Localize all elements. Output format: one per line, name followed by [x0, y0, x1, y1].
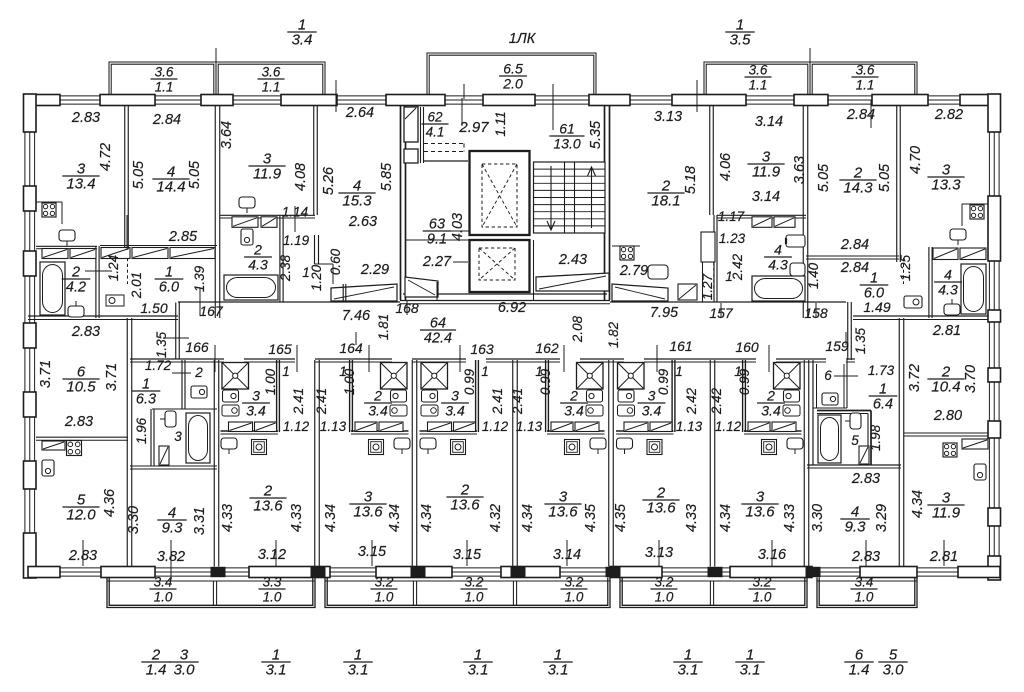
svg-text:3.2: 3.2 [753, 575, 772, 590]
svg-text:4.70: 4.70 [908, 146, 924, 174]
svg-text:3.4: 3.4 [642, 403, 662, 419]
svg-text:3.64: 3.64 [219, 121, 235, 149]
svg-text:7.95: 7.95 [650, 305, 679, 321]
svg-text:1.0: 1.0 [263, 590, 282, 605]
svg-text:1: 1 [535, 364, 543, 379]
svg-text:5.05: 5.05 [187, 160, 203, 189]
svg-text:2: 2 [253, 242, 262, 258]
svg-text:5.05: 5.05 [877, 163, 893, 192]
svg-text:3: 3 [451, 388, 459, 404]
svg-text:1.0: 1.0 [565, 590, 584, 605]
svg-text:3.2: 3.2 [655, 575, 674, 590]
svg-text:13.4: 13.4 [66, 176, 95, 193]
svg-text:2.27: 2.27 [422, 254, 452, 270]
svg-text:2.84: 2.84 [152, 112, 181, 128]
svg-text:1.50: 1.50 [140, 300, 167, 316]
svg-text:3: 3 [174, 429, 182, 444]
svg-text:0.60: 0.60 [328, 248, 343, 275]
svg-text:6.4: 6.4 [873, 397, 893, 413]
svg-text:165: 165 [268, 341, 292, 357]
svg-text:13.0: 13.0 [553, 136, 580, 152]
svg-text:3: 3 [648, 388, 656, 404]
svg-text:4.33: 4.33 [289, 504, 305, 532]
svg-text:13.6: 13.6 [353, 504, 383, 521]
svg-text:1: 1 [675, 364, 683, 379]
svg-text:3.14: 3.14 [752, 189, 780, 205]
svg-text:11.9: 11.9 [752, 164, 781, 181]
svg-text:3.4: 3.4 [292, 32, 313, 49]
svg-text:1.1: 1.1 [749, 78, 768, 93]
svg-text:2.29: 2.29 [360, 262, 389, 278]
svg-text:3.30: 3.30 [126, 506, 142, 534]
svg-text:1.98: 1.98 [868, 424, 883, 451]
svg-text:3.4: 3.4 [564, 403, 584, 419]
svg-text:4.35: 4.35 [583, 503, 599, 532]
svg-text:2.41: 2.41 [314, 388, 329, 415]
svg-text:2: 2 [569, 388, 578, 404]
svg-text:1.81: 1.81 [376, 314, 391, 340]
svg-text:1.12: 1.12 [715, 419, 742, 434]
svg-text:7.46: 7.46 [342, 308, 371, 324]
svg-text:4.33: 4.33 [782, 504, 798, 532]
svg-text:2.83: 2.83 [64, 414, 93, 430]
svg-text:1.11: 1.11 [493, 111, 508, 136]
svg-text:42.4: 42.4 [424, 331, 452, 347]
svg-text:3.0: 3.0 [174, 662, 196, 679]
svg-text:15.3: 15.3 [342, 193, 372, 210]
svg-text:4.33: 4.33 [684, 504, 700, 532]
svg-text:3.4: 3.4 [445, 403, 465, 419]
svg-text:2.83: 2.83 [71, 110, 100, 126]
svg-text:3.6: 3.6 [749, 63, 768, 78]
svg-text:63: 63 [429, 217, 445, 233]
svg-text:3.3: 3.3 [263, 575, 282, 590]
svg-text:159: 159 [825, 338, 849, 354]
svg-text:2.63: 2.63 [348, 214, 377, 230]
svg-text:1.1: 1.1 [856, 78, 875, 93]
svg-text:3.6: 3.6 [155, 65, 174, 80]
svg-text:167: 167 [199, 303, 224, 319]
svg-text:3.6: 3.6 [856, 63, 875, 78]
svg-text:1: 1 [481, 364, 489, 379]
svg-text:4.03: 4.03 [450, 213, 466, 241]
svg-text:6.92: 6.92 [498, 300, 526, 316]
svg-text:1: 1 [870, 271, 878, 287]
svg-text:161: 161 [669, 338, 692, 354]
svg-text:2.38: 2.38 [278, 254, 293, 282]
svg-text:5.26: 5.26 [321, 166, 337, 195]
svg-text:4.72: 4.72 [98, 143, 114, 171]
svg-text:3.4: 3.4 [368, 403, 388, 419]
svg-text:4: 4 [944, 267, 952, 283]
svg-text:5.18: 5.18 [683, 166, 699, 194]
svg-text:1.40: 1.40 [806, 262, 821, 289]
svg-text:0.99: 0.99 [462, 368, 477, 395]
svg-text:3.1: 3.1 [740, 662, 761, 679]
svg-text:2: 2 [766, 388, 775, 404]
svg-text:1.19: 1.19 [283, 233, 310, 248]
svg-text:3.1: 3.1 [348, 662, 369, 679]
svg-text:1: 1 [142, 377, 150, 393]
svg-text:5: 5 [851, 433, 859, 448]
svg-text:1: 1 [734, 364, 742, 379]
svg-text:3.12: 3.12 [258, 547, 286, 563]
svg-text:1ЛК: 1ЛК [509, 31, 537, 47]
svg-text:3.71: 3.71 [38, 360, 54, 388]
svg-text:1.13: 1.13 [320, 419, 347, 434]
svg-text:64: 64 [430, 316, 446, 332]
svg-text:3.70: 3.70 [963, 365, 979, 393]
svg-text:3.4: 3.4 [761, 403, 781, 419]
svg-text:0.99: 0.99 [656, 368, 671, 395]
svg-text:1.13: 1.13 [676, 419, 703, 434]
svg-text:1.4: 1.4 [849, 662, 870, 679]
svg-text:2: 2 [71, 265, 80, 281]
svg-text:5.35: 5.35 [588, 120, 604, 149]
svg-text:3: 3 [252, 388, 260, 404]
svg-text:14.4: 14.4 [156, 179, 185, 196]
svg-text:164: 164 [339, 340, 363, 356]
svg-text:9.1: 9.1 [427, 232, 447, 248]
svg-text:1.4: 1.4 [146, 662, 167, 679]
svg-text:157: 157 [709, 305, 734, 321]
svg-text:1.17: 1.17 [718, 209, 745, 224]
svg-text:2.80: 2.80 [933, 408, 962, 424]
svg-text:1.0: 1.0 [154, 590, 173, 605]
svg-text:162: 162 [535, 340, 559, 356]
svg-text:4.34: 4.34 [520, 504, 536, 532]
svg-text:2.42: 2.42 [684, 387, 699, 415]
svg-text:2.64: 2.64 [345, 105, 374, 121]
svg-text:2.42: 2.42 [709, 387, 724, 415]
svg-text:3.13: 3.13 [654, 109, 682, 125]
svg-text:4.1: 4.1 [426, 125, 445, 140]
svg-text:1.96: 1.96 [134, 417, 149, 444]
svg-text:1.0: 1.0 [655, 590, 674, 605]
svg-text:2.79: 2.79 [619, 263, 648, 279]
svg-text:3.2: 3.2 [565, 575, 584, 590]
svg-text:18.1: 18.1 [651, 193, 680, 210]
svg-text:2.83: 2.83 [71, 324, 100, 340]
svg-text:4.33: 4.33 [220, 504, 236, 532]
svg-text:12.0: 12.0 [66, 507, 96, 524]
svg-text:14.3: 14.3 [843, 180, 873, 197]
svg-text:1.49: 1.49 [863, 299, 890, 315]
svg-text:1.12: 1.12 [482, 419, 509, 434]
svg-text:4.34: 4.34 [323, 504, 339, 532]
svg-text:3.31: 3.31 [192, 507, 208, 535]
svg-text:4.34: 4.34 [387, 504, 403, 532]
svg-text:11.9: 11.9 [253, 166, 282, 183]
svg-text:3.4: 3.4 [154, 575, 173, 590]
svg-text:1: 1 [339, 364, 347, 379]
svg-text:3.2: 3.2 [465, 575, 484, 590]
svg-text:3.72: 3.72 [907, 364, 923, 392]
svg-text:2.84: 2.84 [840, 237, 869, 253]
svg-text:4: 4 [774, 242, 782, 258]
svg-text:2.81: 2.81 [932, 323, 961, 339]
svg-text:5.05: 5.05 [131, 160, 147, 189]
svg-text:2.84: 2.84 [840, 260, 869, 276]
svg-text:1.0: 1.0 [753, 590, 772, 605]
svg-text:1.27: 1.27 [700, 273, 715, 300]
svg-text:1.1: 1.1 [262, 80, 281, 95]
svg-text:1.1: 1.1 [155, 80, 174, 95]
svg-text:2.82: 2.82 [934, 107, 963, 123]
svg-text:5.85: 5.85 [379, 162, 395, 191]
svg-text:3.14: 3.14 [755, 114, 783, 130]
svg-text:4.2: 4.2 [66, 280, 86, 296]
svg-text:5.05: 5.05 [816, 163, 832, 192]
svg-text:4.34: 4.34 [910, 490, 926, 518]
svg-text:1.0: 1.0 [855, 590, 874, 605]
svg-text:3.0: 3.0 [883, 662, 905, 679]
svg-text:1.0: 1.0 [465, 590, 484, 605]
svg-text:1.0: 1.0 [375, 590, 394, 605]
svg-text:4.34: 4.34 [718, 504, 734, 532]
svg-text:3.1: 3.1 [468, 662, 489, 679]
svg-text:1: 1 [725, 269, 733, 284]
svg-text:2.41: 2.41 [291, 388, 306, 415]
svg-text:4.3: 4.3 [248, 257, 268, 273]
svg-text:2.0: 2.0 [502, 76, 523, 92]
svg-text:62: 62 [427, 110, 443, 125]
svg-text:13.6: 13.6 [646, 500, 676, 517]
svg-text:4.3: 4.3 [938, 282, 958, 298]
svg-text:1.82: 1.82 [606, 321, 621, 348]
svg-text:9.3: 9.3 [845, 519, 867, 536]
svg-text:2.01: 2.01 [129, 272, 144, 299]
svg-text:1: 1 [302, 265, 310, 280]
svg-text:3.30: 3.30 [810, 504, 826, 532]
svg-text:6.3: 6.3 [136, 392, 156, 408]
svg-text:4.32: 4.32 [488, 504, 504, 532]
svg-text:13.3: 13.3 [931, 177, 961, 194]
svg-text:3.4: 3.4 [855, 575, 874, 590]
svg-text:6: 6 [824, 368, 832, 383]
svg-text:1.35: 1.35 [154, 331, 169, 358]
svg-text:13.6: 13.6 [745, 504, 775, 521]
svg-text:2.85: 2.85 [168, 229, 198, 245]
svg-text:10.5: 10.5 [66, 379, 96, 396]
svg-text:163: 163 [470, 341, 494, 357]
svg-text:1.13: 1.13 [516, 419, 543, 434]
svg-text:3.1: 3.1 [266, 662, 287, 679]
svg-text:6.0: 6.0 [159, 280, 179, 296]
svg-text:4.06: 4.06 [718, 152, 734, 181]
svg-text:1.72: 1.72 [145, 358, 172, 373]
svg-text:3.4: 3.4 [246, 403, 266, 419]
svg-text:11.9: 11.9 [932, 505, 961, 522]
svg-text:13.6: 13.6 [450, 497, 480, 514]
svg-text:3.71: 3.71 [104, 363, 120, 391]
svg-text:3.29: 3.29 [874, 504, 890, 532]
svg-text:2.83: 2.83 [851, 471, 880, 487]
svg-text:3.2: 3.2 [375, 575, 394, 590]
svg-text:1: 1 [282, 364, 290, 379]
svg-text:1.35: 1.35 [853, 327, 868, 354]
svg-text:1.25: 1.25 [898, 254, 913, 281]
svg-text:2.41: 2.41 [510, 388, 525, 415]
svg-text:1.73: 1.73 [868, 363, 895, 378]
svg-text:13.6: 13.6 [548, 504, 578, 521]
svg-text:2.43: 2.43 [558, 252, 587, 268]
svg-text:1: 1 [879, 382, 887, 398]
svg-text:61: 61 [559, 121, 575, 137]
svg-text:2.08: 2.08 [570, 315, 585, 343]
svg-text:3.1: 3.1 [678, 662, 699, 679]
svg-text:2: 2 [373, 388, 382, 404]
svg-text:1.23: 1.23 [719, 231, 746, 246]
svg-text:3.6: 3.6 [262, 65, 281, 80]
svg-text:4.36: 4.36 [102, 488, 118, 517]
svg-text:2: 2 [194, 365, 203, 380]
svg-text:160: 160 [735, 339, 759, 355]
svg-text:1.24: 1.24 [106, 255, 121, 281]
svg-text:4.35: 4.35 [613, 503, 629, 532]
svg-text:1.12: 1.12 [283, 419, 310, 434]
svg-text:4.08: 4.08 [293, 163, 309, 191]
svg-text:6.5: 6.5 [503, 61, 523, 77]
svg-text:166: 166 [185, 339, 209, 355]
svg-text:2.41: 2.41 [490, 388, 505, 415]
svg-text:10.4: 10.4 [931, 379, 960, 396]
svg-text:1: 1 [165, 265, 173, 281]
svg-text:9.3: 9.3 [162, 520, 184, 537]
svg-text:3.63: 3.63 [792, 156, 808, 184]
svg-text:3.5: 3.5 [730, 32, 752, 49]
svg-text:3.1: 3.1 [548, 662, 569, 679]
svg-text:4.3: 4.3 [768, 257, 788, 273]
svg-text:13.6: 13.6 [253, 498, 283, 515]
svg-text:2.97: 2.97 [458, 119, 489, 136]
svg-text:4.34: 4.34 [419, 504, 435, 532]
svg-text:1.20: 1.20 [309, 264, 324, 291]
svg-text:1.00: 1.00 [263, 368, 278, 395]
